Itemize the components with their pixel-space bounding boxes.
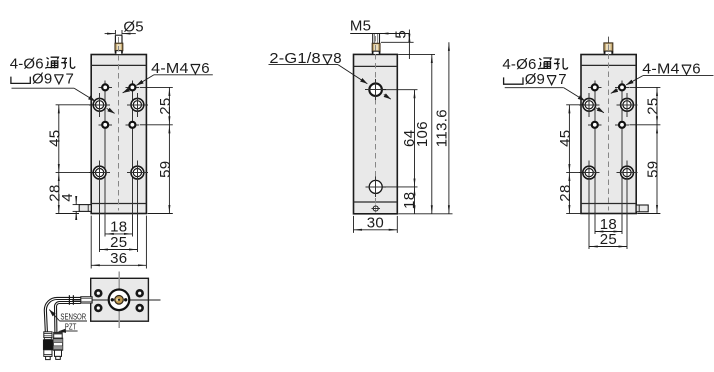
- right view hanzi kong: [554, 58, 568, 69]
- left view counterbore leader line: [12, 88, 115, 113]
- middle view G1/8 lower port: [366, 177, 386, 197]
- svg-text:7: 7: [558, 71, 567, 88]
- left view M4 extension lines to bottom dim 18: [104, 92, 106, 237]
- svg-text:5: 5: [392, 30, 409, 39]
- left view nipple tube: [114, 35, 116, 51]
- left view counterbore extension lines to bottom dim 25: [99, 173, 101, 252]
- left view M4 hole bottom-right: [126, 118, 140, 132]
- middle view dimension 5: [381, 30, 414, 60]
- middle view G1/8 upper port: [365, 79, 386, 100]
- bottom view mounting holes: [94, 289, 144, 312]
- left view M4 hole top-right: [126, 81, 140, 95]
- middle view top band line: [354, 65, 398, 67]
- cable sensor outer line: [44, 297, 81, 331]
- right view side protrusion: [636, 205, 648, 212]
- left view body: [91, 55, 146, 214]
- svg-text:Ø9: Ø9: [525, 71, 545, 88]
- left view counterbore hole bottom-left: [89, 161, 110, 185]
- svg-text:59: 59: [645, 161, 662, 178]
- right view nipple neck: [605, 51, 612, 54]
- hanzi tong: [45, 57, 58, 68]
- middle view G1/8 leader line: [269, 65, 391, 100]
- middle view body: [354, 54, 398, 213]
- left view dimension O5: [105, 30, 136, 35]
- left view dimension 28: [56, 173, 79, 214]
- svg-text:6: 6: [201, 60, 210, 77]
- right view counterbore hole bottom-left: [579, 161, 600, 185]
- left view counterbore holes O9: [89, 93, 110, 117]
- svg-text:SENSOR: SENSOR: [60, 313, 86, 322]
- right view dimension 59: [637, 125, 660, 214]
- middle view bottom screw: [372, 204, 380, 212]
- right view bottom band line: [581, 203, 636, 205]
- pzt connector: [53, 332, 62, 359]
- right view top band line: [581, 64, 636, 66]
- svg-text:8: 8: [333, 50, 342, 67]
- svg-text:30: 30: [367, 215, 384, 232]
- left view M4 leader line: [123, 75, 213, 93]
- svg-text:36: 36: [110, 250, 127, 267]
- svg-text:PZT: PZT: [65, 323, 77, 332]
- svg-text:6: 6: [692, 61, 701, 78]
- right view M4 hole bottom-right: [615, 118, 629, 132]
- right view bottom dimension 18: [595, 231, 622, 233]
- left view vertical centerline: [118, 37, 120, 211]
- svg-text:7: 7: [66, 70, 75, 87]
- svg-text:113.6: 113.6: [434, 109, 451, 147]
- left view bottom dimension 25: [100, 249, 138, 251]
- svg-text:25: 25: [157, 97, 174, 114]
- cable pzt outer line: [55, 302, 81, 333]
- right view counterbore extension lines: [588, 173, 590, 249]
- left view M4 hole bottom-left: [98, 118, 112, 132]
- svg-text:25: 25: [110, 234, 127, 251]
- left view counterbore hole bottom-right: [127, 161, 148, 185]
- right view counterbore hole bottom-right: [617, 161, 638, 185]
- svg-text:45: 45: [46, 130, 63, 147]
- right view counterbore hole top-left: [579, 93, 600, 117]
- middle view nipple brass nut: [372, 43, 380, 51]
- svg-text:18: 18: [401, 192, 418, 209]
- right view vertical centerline: [608, 45, 610, 211]
- svg-text:25: 25: [645, 97, 662, 114]
- svg-text:4: 4: [59, 193, 76, 202]
- svg-text:M5: M5: [350, 18, 371, 35]
- bottom view cable gland: [81, 297, 92, 303]
- cable sensor inner line: [46, 300, 80, 332]
- svg-text:45: 45: [557, 130, 574, 147]
- right view M4 hole top-left: [588, 81, 602, 95]
- svg-text:18: 18: [110, 219, 127, 236]
- svg-text:28: 28: [557, 184, 574, 201]
- bottom view vertical centerline: [118, 272, 120, 329]
- right view dimension 45: [566, 105, 584, 173]
- right view M4 leader line: [611, 76, 714, 94]
- hanzi kong: [61, 57, 75, 68]
- middle view dimension 113.6: [398, 42, 452, 214]
- right view M4 extension lines: [594, 92, 596, 234]
- middle view dimension 18: [414, 187, 416, 214]
- middle view vertical centerline: [375, 36, 377, 211]
- middle view dimension 106: [398, 54, 435, 213]
- left view dimension 59: [148, 125, 173, 214]
- left view side protrusion: [79, 205, 91, 212]
- right view nipple brass nut: [604, 43, 613, 51]
- middle view dimension 64: [382, 90, 418, 187]
- middle view nipple tube: [372, 34, 374, 44]
- bottom view brass center nut: [115, 296, 124, 305]
- right view nipple stem: [608, 37, 610, 43]
- left view dimension 4: [73, 197, 81, 219]
- right view counterbore hole top-right: [617, 93, 638, 117]
- left view bottom dimension 18: [105, 233, 132, 235]
- left view bottom band line: [91, 203, 146, 205]
- bottom view central boss circle: [109, 290, 130, 311]
- bottom view square body: [91, 278, 149, 321]
- right view bottom dimension 25: [589, 246, 627, 248]
- middle view nipple neck: [373, 51, 379, 54]
- svg-text:59: 59: [157, 161, 174, 178]
- middle view bottom band line: [354, 201, 398, 203]
- right view hanzi tong: [538, 58, 551, 69]
- svg-text:4-M4: 4-M4: [642, 61, 679, 78]
- right view dimension 25: [629, 87, 660, 124]
- bottom view gland break bars: [68, 295, 70, 305]
- svg-text:Ø9: Ø9: [32, 70, 52, 87]
- left view nipple brass nut: [115, 43, 123, 51]
- svg-text:2-G1/8: 2-G1/8: [269, 50, 321, 67]
- left view label counterbore O9 depth 7: [11, 77, 30, 84]
- svg-text:25: 25: [600, 231, 617, 248]
- bottom view horizontal centerline: [72, 299, 161, 301]
- svg-text:Ø5: Ø5: [123, 18, 143, 35]
- right view M4 hole top-right: [615, 81, 629, 95]
- sensor connector: [43, 332, 53, 360]
- right view label counterbore O9 depth 7: [504, 77, 523, 84]
- left view top band line: [91, 64, 146, 66]
- right view body: [581, 55, 636, 214]
- middle view bottom dimension 30: [354, 216, 398, 233]
- cable pzt inner line: [57, 304, 81, 333]
- left view counterbore hole top-right: [127, 93, 148, 117]
- left view tapped holes M4: [98, 81, 112, 95]
- right view counterbore leader line: [505, 88, 604, 113]
- left view dimension 45: [56, 105, 95, 173]
- left view nipple neck: [116, 51, 122, 55]
- right view M4 hole bottom-left: [588, 118, 602, 132]
- left view dimension 25 right: [140, 87, 173, 124]
- right view dimension 28: [566, 173, 582, 214]
- left view bottom dimension 36: [91, 216, 146, 269]
- svg-text:4-M4: 4-M4: [151, 60, 188, 77]
- bottom view side dots on centerline: [111, 298, 114, 301]
- svg-text:106: 106: [414, 121, 431, 147]
